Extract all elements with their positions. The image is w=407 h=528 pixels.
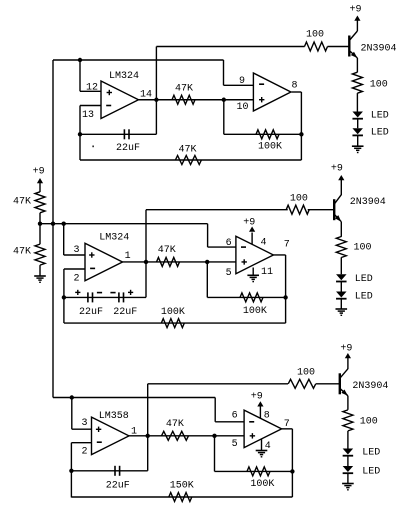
svg-text:13: 13 — [82, 110, 94, 121]
svg-text:22uF: 22uF — [113, 307, 137, 318]
svg-text:100: 100 — [290, 193, 308, 204]
svg-text:2: 2 — [82, 447, 88, 458]
svg-text:22uF: 22uF — [116, 143, 140, 154]
svg-text:10: 10 — [237, 102, 249, 113]
svg-text:100K: 100K — [161, 307, 185, 318]
svg-text:100: 100 — [306, 30, 324, 41]
svg-text:3: 3 — [82, 418, 88, 429]
svg-text:+9: +9 — [243, 217, 255, 228]
svg-text:4: 4 — [265, 441, 271, 452]
svg-text:4: 4 — [261, 237, 267, 248]
svg-text:5: 5 — [226, 268, 232, 279]
svg-text:150K: 150K — [170, 481, 194, 492]
svg-text:47K: 47K — [13, 197, 31, 208]
svg-text:LED: LED — [371, 128, 389, 139]
svg-text:LED: LED — [362, 467, 380, 478]
svg-text:LM358: LM358 — [99, 411, 129, 422]
svg-text:100K: 100K — [250, 479, 274, 490]
svg-text:LM324: LM324 — [99, 233, 129, 244]
svg-text:+9: +9 — [340, 344, 352, 355]
svg-text:100: 100 — [370, 80, 388, 91]
svg-text:LED: LED — [355, 274, 373, 285]
svg-text:2N3904: 2N3904 — [350, 197, 386, 208]
svg-text:6: 6 — [226, 238, 232, 249]
svg-text:9: 9 — [239, 76, 245, 87]
svg-text:8: 8 — [292, 81, 298, 92]
svg-text:100: 100 — [297, 367, 315, 378]
svg-text:2N3904: 2N3904 — [352, 381, 388, 392]
svg-text:+9: +9 — [331, 164, 343, 175]
svg-text:8: 8 — [264, 410, 270, 421]
svg-text:LED: LED — [362, 448, 380, 459]
svg-text:2N3904: 2N3904 — [361, 44, 397, 55]
svg-text:100K: 100K — [243, 306, 267, 317]
svg-text:22uF: 22uF — [79, 307, 103, 318]
svg-text:LED: LED — [371, 111, 389, 122]
svg-text:2: 2 — [74, 273, 80, 284]
svg-text:LM324: LM324 — [109, 71, 139, 82]
svg-text:100: 100 — [360, 417, 378, 428]
svg-text:47K: 47K — [179, 145, 197, 156]
svg-text:+9: +9 — [251, 391, 263, 402]
svg-text:100: 100 — [354, 242, 372, 253]
svg-text:11: 11 — [261, 267, 273, 278]
svg-text:47K: 47K — [158, 245, 176, 256]
svg-text:100K: 100K — [258, 142, 282, 153]
svg-text:14: 14 — [140, 90, 152, 101]
svg-text:+9: +9 — [350, 5, 362, 16]
svg-text:6: 6 — [232, 410, 238, 421]
svg-text:1: 1 — [131, 427, 137, 438]
svg-text:+9: +9 — [33, 167, 45, 178]
svg-text:47K: 47K — [166, 419, 184, 430]
svg-text:12: 12 — [86, 82, 98, 93]
svg-text:LED: LED — [355, 291, 373, 302]
svg-text:47K: 47K — [175, 84, 193, 95]
svg-text:3: 3 — [74, 245, 80, 256]
svg-text:47K: 47K — [13, 247, 31, 258]
svg-text:5: 5 — [232, 439, 238, 450]
svg-text:22uF: 22uF — [106, 481, 130, 492]
svg-text:7: 7 — [284, 419, 290, 430]
svg-text:7: 7 — [284, 240, 290, 251]
svg-text:1: 1 — [125, 251, 131, 262]
